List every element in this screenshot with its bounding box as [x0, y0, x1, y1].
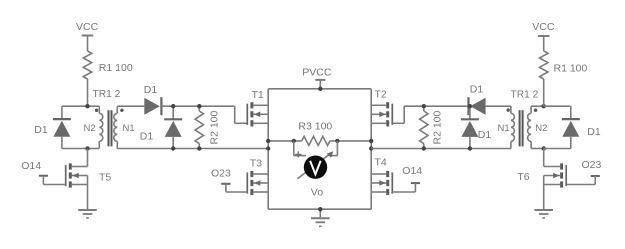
svg-text:R3 100: R3 100 [298, 121, 332, 133]
svg-text:Vo: Vo [311, 187, 323, 199]
svg-text:R2 100: R2 100 [432, 110, 444, 144]
svg-text:N2: N2 [84, 123, 96, 134]
svg-text:O14: O14 [402, 165, 422, 177]
svg-text:D1: D1 [478, 129, 492, 141]
svg-text:N2: N2 [535, 123, 547, 134]
svg-text:D1: D1 [587, 126, 601, 138]
svg-text:T3: T3 [250, 158, 262, 170]
svg-text:T1: T1 [252, 89, 264, 101]
svg-text:O23: O23 [211, 167, 231, 179]
svg-text:VCC: VCC [532, 21, 555, 33]
svg-text:TR1 2: TR1 2 [511, 90, 539, 101]
svg-text:N1: N1 [123, 123, 135, 134]
svg-text:VCC: VCC [76, 21, 99, 33]
svg-text:T4: T4 [375, 157, 387, 169]
svg-text:D1: D1 [140, 131, 154, 143]
svg-text:T2: T2 [375, 89, 387, 101]
svg-text:D1: D1 [470, 84, 484, 96]
svg-text:D1: D1 [144, 84, 158, 96]
svg-text:N1: N1 [498, 123, 510, 134]
svg-text:T5: T5 [99, 171, 111, 183]
svg-text:R1 100: R1 100 [99, 62, 133, 74]
svg-text:D1: D1 [34, 124, 48, 136]
svg-text:R2 100: R2 100 [209, 110, 221, 144]
svg-text:T6: T6 [517, 171, 529, 183]
svg-text:O14: O14 [21, 160, 41, 172]
svg-text:TR1 2: TR1 2 [93, 89, 121, 100]
svg-text:O23: O23 [582, 159, 602, 171]
svg-text:PVCC: PVCC [302, 67, 332, 79]
svg-text:R1 100: R1 100 [554, 63, 588, 75]
